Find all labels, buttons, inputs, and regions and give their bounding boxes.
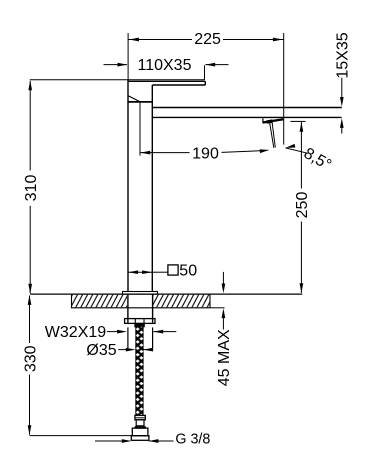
base plate: [123, 292, 158, 295]
svg-text:50: 50: [179, 263, 197, 280]
extension line left of 225: [127, 33, 129, 80]
dimension 330 line lower segment: [29, 375, 31, 435]
svg-text:250: 250: [294, 192, 311, 219]
washer facet line left: [134, 319, 136, 324]
dimension 15X35 vertical line lower: [341, 125, 343, 134]
angle 8.5 leader arrow: [285, 144, 295, 150]
extension line top of lever (310 datum): [30, 79, 205, 81]
dimension 310 bottom arrow: [28, 284, 32, 294]
dimension 310 top arrow: [28, 80, 32, 90]
dimension 45MAX lower line: [222, 315, 224, 330]
dimension 250 top arrow: [300, 122, 304, 132]
dimension 225 line right segment: [222, 39, 284, 41]
body left edge: [127, 80, 129, 292]
svg-text:330: 330: [22, 345, 39, 372]
lever handle top edge: [128, 80, 205, 82]
dimension 45MAX upper line: [222, 272, 224, 288]
dimension 110X35 right arrow: [205, 63, 215, 67]
dimension 45MAX up arrow: [222, 308, 226, 318]
dimension 110X35 left arrow line: [104, 64, 128, 66]
lever wedge slope: [128, 96, 140, 102]
dimension 50 leader: [152, 271, 168, 273]
dimension 190 line right segment: [222, 151, 264, 153]
dimension 50 left arrow: [128, 270, 138, 274]
dimension 190 extension line: [139, 102, 141, 155]
extension line right of 110X35: [204, 65, 206, 80]
lever handle bottom edge: [152, 84, 205, 86]
svg-text:45 MAX: 45 MAX: [216, 329, 233, 386]
dimension W32X19 leader line: [107, 331, 121, 333]
svg-text:G 3/8: G 3/8: [175, 432, 210, 448]
dimension 225 right arrow: [273, 38, 283, 42]
dimension D35 left arrow: [126, 348, 136, 352]
dimension 50 right arrow: [142, 270, 152, 274]
G3/8 nut lower: [131, 436, 149, 441]
dimension 50 line: [128, 271, 152, 273]
hose end collar: [135, 415, 145, 419]
dimension 15X35 bottom arrow: [340, 118, 344, 128]
aerator 8.5 deg extension line b: [272, 121, 275, 148]
hose end collar line: [135, 417, 145, 419]
dimension 190 line left segment: [140, 152, 189, 154]
dimension W32X19 left arrow: [117, 330, 127, 334]
dimension 110X35 left arrow: [118, 63, 128, 67]
dimension D35 leader line: [118, 349, 129, 351]
G3/8 right leader line: [149, 440, 174, 442]
svg-text:W32X19: W32X19: [45, 324, 106, 341]
label 190: [191, 146, 221, 159]
body right edge: [151, 85, 153, 292]
aerator tick left edge: [262, 118, 264, 123]
spout top line: [152, 107, 341, 109]
angle 8.5 leader line: [285, 148, 307, 153]
dimension 310 line upper segment: [29, 81, 31, 171]
dimension 45MAX down arrow: [222, 284, 226, 294]
dimension 190 left arrow: [140, 151, 150, 155]
dimension 250 line upper segment: [300, 122, 302, 189]
washer under deck: [125, 319, 155, 324]
dimension 250 bottom arrow: [300, 283, 304, 293]
extension line right of 225: [283, 33, 285, 145]
dimension 250 extension line: [291, 120, 306, 122]
dimension D35 right arrow: [143, 348, 153, 352]
dimension 110X35 right arrow line: [205, 64, 228, 66]
svg-text:Ø35: Ø35: [86, 342, 116, 359]
G3/8 left leader line: [95, 440, 126, 442]
lever handle right edge: [204, 81, 206, 85]
svg-text:15X35: 15X35: [335, 32, 352, 78]
deck bottom extension line: [210, 307, 225, 309]
svg-text:225: 225: [194, 31, 221, 48]
dimension 190 right arrow: [260, 148, 270, 153]
deck hatch right part: [153, 295, 210, 308]
body top line: [127, 101, 152, 103]
aerator 8.5 deg extension line a: [269, 121, 273, 148]
G3/8 left arrow: [122, 439, 132, 443]
dimension 330 bottom arrow: [28, 425, 32, 435]
dimension 15X35 vertical line upper: [341, 78, 343, 101]
fitting neck line: [136, 425, 144, 427]
G3/8 right arrow: [149, 439, 159, 443]
shank through deck left: [127, 294, 129, 323]
deck hatch left part: [72, 295, 127, 308]
aerator thick blob: [267, 121, 273, 122]
dimension 225 left arrow: [129, 38, 139, 42]
svg-text:310: 310: [23, 175, 40, 202]
fitting neck: [136, 420, 144, 427]
label 225: [192, 32, 223, 46]
G3/8 nut upper: [132, 428, 148, 436]
dimension 330 line upper segment: [29, 296, 31, 344]
aerator face thick tilted line: [263, 119, 283, 122]
deck top line: [30, 293, 302, 295]
square symbol of 50: [168, 265, 178, 275]
svg-text:190: 190: [192, 145, 219, 162]
dimension W32X19 right arrow: [153, 330, 163, 334]
extension line bottom of 330: [30, 435, 133, 437]
crimp connector: [135, 323, 144, 326]
shank lower left line: [127, 327, 129, 348]
dimension 310 line lower segment: [29, 206, 31, 294]
deck slab left outline: [72, 294, 211, 308]
washer facet line right: [143, 319, 145, 324]
dimension W32X19 right line: [153, 331, 176, 333]
dimension 330 top arrow: [28, 295, 32, 305]
dimension 225 line left segment: [128, 39, 193, 41]
flexible hose braided: [135, 327, 143, 416]
dimension D35 right line: [143, 349, 152, 351]
dimension 250 line lower segment: [300, 222, 302, 293]
shank through deck right: [152, 294, 154, 323]
dimension 15X35 top arrow: [340, 97, 344, 107]
fitting collar 2: [135, 427, 145, 428]
shank lower right line: [152, 327, 154, 348]
svg-text:110X35: 110X35: [138, 57, 192, 74]
spout bottom line: [152, 116, 341, 118]
